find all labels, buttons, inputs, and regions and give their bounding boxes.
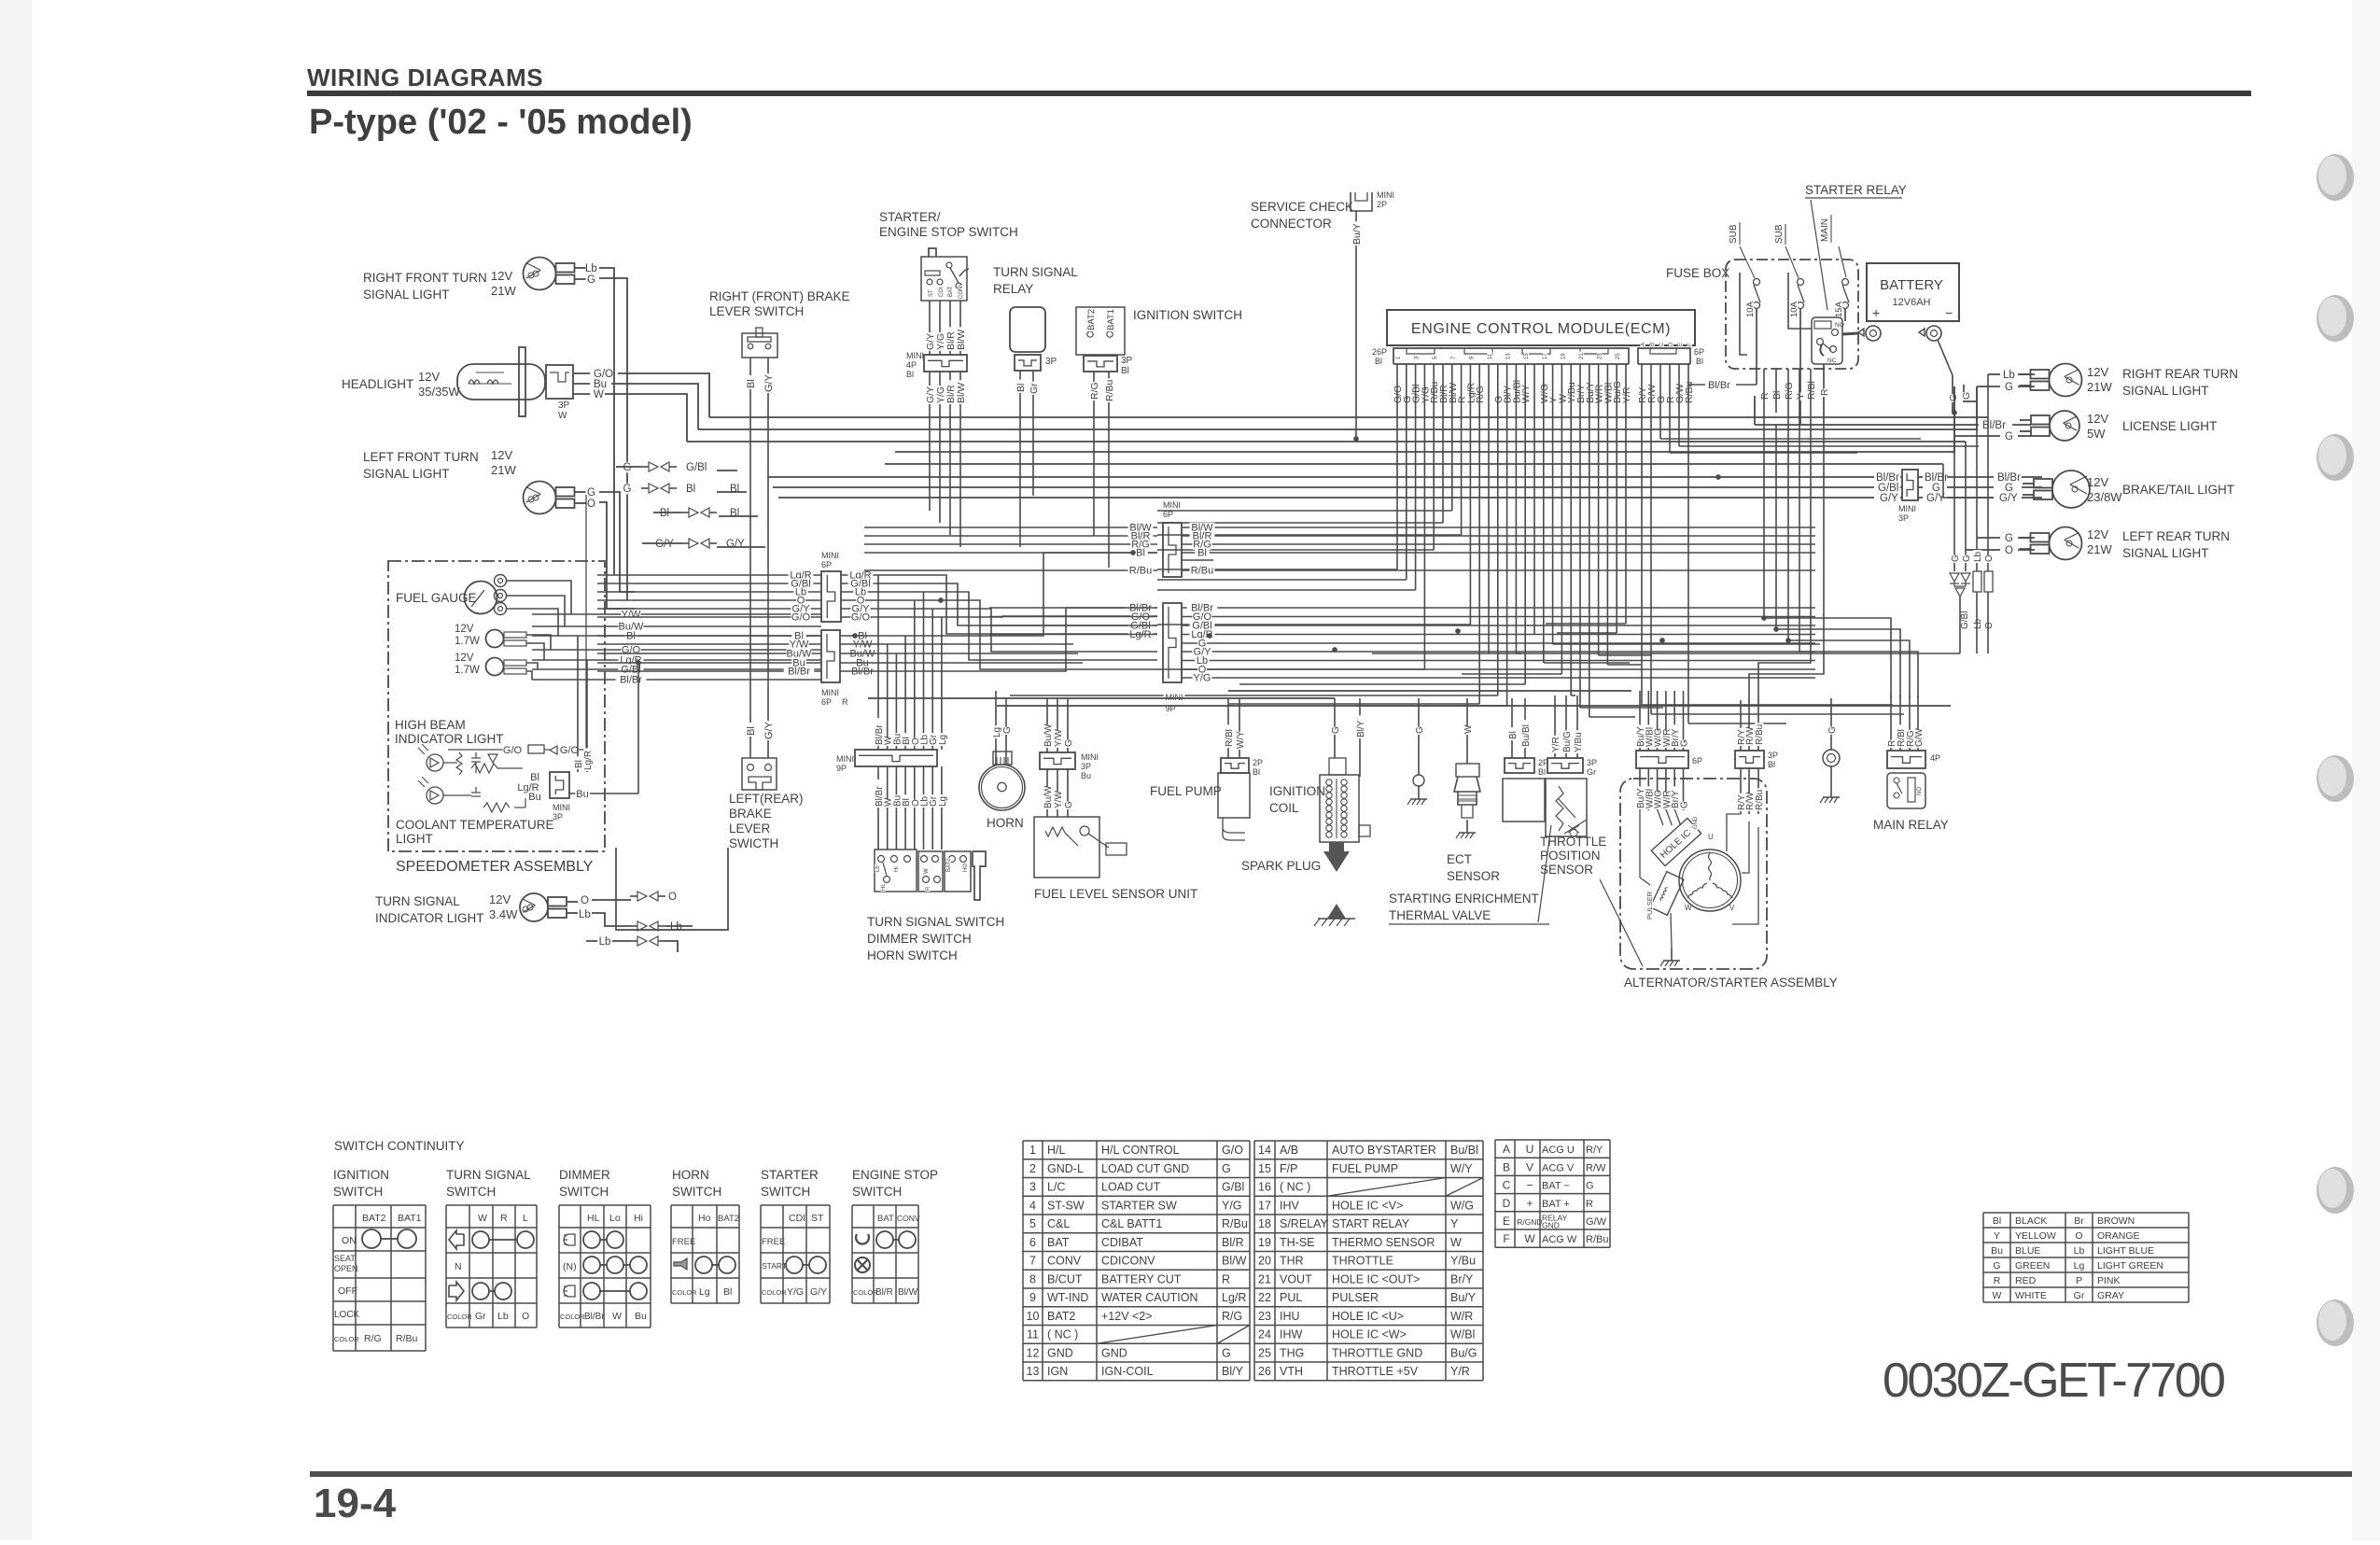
svg-text:Lg: Lg [938, 796, 948, 807]
svg-text:Bu/Bl: Bu/Bl [1450, 1144, 1478, 1157]
svg-text:GND: GND [1542, 1220, 1560, 1229]
svg-text:F: F [1503, 1232, 1509, 1245]
svg-text:2: 2 [1029, 1162, 1036, 1175]
svg-text:THR: THR [1280, 1255, 1304, 1268]
svg-text:W/Y: W/Y [1236, 731, 1246, 749]
svg-text:Bl: Bl [906, 370, 914, 379]
svg-text:THROTTLE +5V: THROTTLE +5V [1332, 1365, 1419, 1378]
svg-text:Y/W: Y/W [1054, 791, 1064, 808]
svg-text:WT-IND: WT-IND [1047, 1291, 1088, 1304]
svg-text:G: G [1962, 555, 1972, 562]
svg-text:NO: NO [1835, 322, 1844, 329]
svg-text:GND: GND [1693, 816, 1699, 829]
svg-text:6P: 6P [1694, 347, 1704, 357]
svg-text:CDICONV: CDICONV [1101, 1255, 1155, 1268]
svg-text:G/O: G/O [503, 745, 523, 756]
svg-text:Bu/Y: Bu/Y [1351, 223, 1363, 245]
svg-text:+12V <2>: +12V <2> [1101, 1310, 1153, 1323]
svg-text:COLOR: COLOR [560, 1313, 585, 1321]
svg-text:BAT2: BAT2 [362, 1213, 386, 1224]
svg-text:RIGHT FRONT TURN: RIGHT FRONT TURN [363, 271, 487, 285]
svg-text:WHITE: WHITE [2015, 1290, 2047, 1301]
svg-text:Bu/W: Bu/W [1043, 723, 1054, 747]
svg-text:MINI: MINI [1377, 190, 1394, 200]
svg-text:G: G [1415, 726, 1425, 734]
svg-text:R: R [926, 886, 931, 891]
svg-text:LEFT FRONT TURN: LEFT FRONT TURN [363, 450, 479, 464]
svg-text:Bl/R: Bl/R [1222, 1236, 1244, 1249]
svg-text:SWITCH: SWITCH [559, 1185, 609, 1199]
svg-text:IGN-COIL: IGN-COIL [1101, 1365, 1154, 1378]
svg-text:YELLOW: YELLOW [2015, 1230, 2056, 1242]
svg-text:CDIBAT: CDIBAT [1101, 1236, 1143, 1249]
svg-text:BAT +: BAT + [1542, 1199, 1570, 1210]
svg-text:W/G: W/G [1450, 1199, 1474, 1212]
svg-text:G/Y: G/Y [1926, 493, 1945, 504]
svg-text:SWITCH: SWITCH [446, 1185, 496, 1199]
svg-text:Lg: Lg [938, 735, 948, 745]
svg-text:R/G: R/G [1222, 1310, 1242, 1323]
svg-text:Gr: Gr [2074, 1290, 2085, 1301]
svg-text:Y/W: Y/W [622, 610, 641, 621]
svg-text:BATTERY CUT: BATTERY CUT [1101, 1272, 1182, 1285]
svg-text:0030Z-GET-7700: 0030Z-GET-7700 [1883, 1354, 2224, 1408]
svg-text:+: + [1872, 305, 1880, 320]
svg-text:15: 15 [1258, 1162, 1271, 1175]
svg-text:Bl: Bl [1771, 391, 1783, 400]
svg-text:1: 1 [1029, 1144, 1036, 1157]
svg-text:13: 13 [1027, 1365, 1040, 1378]
svg-text:U: U [1526, 1143, 1534, 1156]
svg-text:7: 7 [1029, 1255, 1036, 1268]
svg-text:IGN: IGN [1047, 1365, 1068, 1378]
svg-text:Bu: Bu [1991, 1245, 2003, 1257]
svg-text:LEFT REAR TURN: LEFT REAR TURN [2122, 529, 2230, 543]
svg-text:SUB: SUB [1774, 224, 1785, 244]
svg-text:G/Y: G/Y [655, 539, 674, 550]
svg-text:Lb: Lb [497, 1311, 509, 1322]
svg-text:HOLE IC <W>: HOLE IC <W> [1332, 1328, 1407, 1341]
svg-text:ORANGE: ORANGE [2097, 1230, 2140, 1242]
svg-text:17: 17 [1258, 1199, 1271, 1212]
svg-text:Bl/Br: Bl/Br [1982, 420, 2006, 431]
svg-text:BAT1: BAT1 [398, 1213, 422, 1224]
svg-text:2P: 2P [1253, 758, 1263, 767]
svg-text:LIGHT GREEN: LIGHT GREEN [2097, 1260, 2163, 1271]
svg-text:ACG U: ACG U [1542, 1145, 1575, 1156]
svg-text:F/P: F/P [1280, 1162, 1297, 1175]
svg-text:CDI: CDI [789, 1213, 805, 1224]
svg-text:6P: 6P [821, 560, 832, 569]
svg-text:26P: 26P [1372, 347, 1387, 357]
svg-text:G: G [587, 487, 595, 499]
svg-text:ST: ST [929, 289, 934, 297]
svg-text:Y/G: Y/G [787, 1286, 804, 1298]
svg-text:8: 8 [1029, 1272, 1036, 1285]
svg-text:IGNITION SWITCH: IGNITION SWITCH [1133, 308, 1242, 322]
svg-text:Y/R: Y/R [1450, 1365, 1470, 1378]
svg-text:LIGHT: LIGHT [396, 832, 433, 846]
svg-text:PULSER: PULSER [1645, 891, 1654, 920]
svg-text:Y/Bu: Y/Bu [1574, 732, 1584, 752]
svg-text:OFF: OFF [338, 1285, 357, 1297]
svg-text:W: W [924, 868, 930, 874]
svg-text:G: G [623, 462, 632, 473]
svg-text:LEFT(REAR): LEFT(REAR) [729, 792, 804, 806]
svg-text:R: R [1222, 1272, 1230, 1285]
svg-text:IHW: IHW [1280, 1328, 1303, 1341]
svg-text:R: R [1994, 1275, 2001, 1286]
svg-text:G: G [1827, 726, 1838, 734]
svg-text:Bl/Y: Bl/Y [1356, 720, 1366, 737]
svg-text:W: W [1463, 724, 1474, 734]
svg-text:19-4: 19-4 [314, 1481, 397, 1526]
svg-text:10A: 10A [1745, 301, 1756, 317]
svg-text:NC: NC [1827, 358, 1837, 364]
svg-text:ECT: ECT [1447, 852, 1472, 866]
svg-text:W: W [612, 1311, 622, 1322]
svg-text:LICENSE LIGHT: LICENSE LIGHT [2122, 419, 2217, 433]
svg-text:AUTO BYSTARTER: AUTO BYSTARTER [1332, 1144, 1436, 1157]
svg-text:HO: HO [963, 864, 969, 872]
svg-text:LOAD CUT GND: LOAD CUT GND [1101, 1162, 1189, 1175]
svg-text:25: 25 [1258, 1346, 1271, 1359]
svg-text:G/W: G/W [1914, 727, 1925, 747]
svg-text:ALTERNATOR/STARTER ASSEMBLY: ALTERNATOR/STARTER ASSEMBLY [1624, 976, 1838, 990]
svg-text:Gr: Gr [1587, 767, 1596, 777]
svg-text:D: D [1503, 1197, 1511, 1210]
svg-text:SIGNAL LIGHT: SIGNAL LIGHT [363, 288, 450, 302]
svg-text:R: R [842, 697, 848, 707]
svg-text:P: P [2076, 1275, 2082, 1286]
svg-text:12V: 12V [2087, 412, 2108, 426]
svg-text:ST: ST [811, 1213, 824, 1224]
svg-text:G: G [1586, 1181, 1594, 1192]
svg-text:Bl/Br: Bl/Br [1708, 380, 1730, 391]
svg-text:ON: ON [342, 1235, 357, 1246]
svg-text:THROTTLE: THROTTLE [1540, 835, 1606, 849]
svg-text:Y/G: Y/G [1222, 1199, 1242, 1212]
svg-text:ENGINE CONTROL MODULE(ECM): ENGINE CONTROL MODULE(ECM) [1411, 321, 1671, 337]
svg-text:15: 15 [1524, 353, 1530, 359]
svg-text:STARTER/: STARTER/ [879, 210, 941, 224]
svg-text:19: 19 [1258, 1236, 1271, 1249]
svg-text:MINI: MINI [1081, 752, 1099, 762]
svg-text:G/O: G/O [1222, 1144, 1243, 1157]
svg-text:Bl: Bl [1197, 548, 1207, 559]
svg-text:G/Y: G/Y [1999, 493, 2018, 504]
svg-text:A: A [1503, 1143, 1510, 1156]
svg-text:16: 16 [1258, 1181, 1271, 1194]
svg-text:SWITCH: SWITCH [761, 1185, 810, 1199]
svg-text:W: W [1524, 1232, 1535, 1245]
svg-text:INDICATOR LIGHT: INDICATOR LIGHT [375, 911, 484, 925]
svg-text:Bl: Bl [1768, 760, 1775, 769]
svg-text:THERMO SENSOR: THERMO SENSOR [1332, 1236, 1435, 1249]
svg-text:O: O [1984, 555, 1995, 562]
svg-text:RELAY: RELAY [993, 282, 1033, 296]
svg-text:BAT2: BAT2 [718, 1214, 739, 1224]
svg-text:1.7W: 1.7W [455, 636, 480, 647]
svg-text:19: 19 [1561, 353, 1566, 359]
svg-text:O: O [1984, 622, 1995, 629]
svg-text:18: 18 [1258, 1217, 1271, 1230]
svg-text:Bl: Bl [746, 726, 757, 736]
svg-text:R/Bu: R/Bu [1222, 1217, 1248, 1230]
svg-text:Bl: Bl [1993, 1215, 2001, 1227]
svg-text:R/Bl: R/Bl [1806, 381, 1817, 400]
svg-text:G/Bl: G/Bl [686, 462, 707, 473]
svg-text:G: G [1002, 726, 1013, 734]
svg-text:CONV: CONV [1047, 1255, 1082, 1268]
svg-text:12V: 12V [489, 892, 511, 906]
svg-text:Bl: Bl [1538, 767, 1546, 777]
svg-text:L: L [523, 1213, 528, 1224]
svg-text:RIGHT REAR TURN: RIGHT REAR TURN [2122, 367, 2238, 381]
svg-text:21W: 21W [491, 284, 516, 298]
svg-text:R/G: R/G [1089, 382, 1100, 400]
svg-text:−: − [1945, 305, 1953, 320]
svg-text:Lg/R: Lg/R [583, 751, 594, 770]
svg-text:R/W: R/W [1586, 1162, 1606, 1173]
svg-text:HORN SWITCH: HORN SWITCH [867, 948, 958, 962]
svg-text:Br: Br [2074, 1215, 2084, 1227]
svg-text:Bu/G: Bu/G [1562, 731, 1573, 752]
svg-text:G/O: G/O [560, 745, 580, 756]
svg-text:V: V [1729, 904, 1735, 912]
svg-text:W: W [1450, 1236, 1462, 1249]
svg-text:E: E [1503, 1215, 1510, 1228]
svg-text:12V: 12V [491, 448, 512, 462]
svg-text:G: G [587, 274, 595, 286]
svg-text:R/Bu: R/Bu [396, 1333, 418, 1344]
svg-text:24: 24 [1258, 1328, 1271, 1341]
svg-text:Lb: Lb [579, 909, 591, 920]
svg-text:G/O: G/O [851, 612, 871, 624]
svg-text:VTH: VTH [1280, 1365, 1303, 1378]
svg-text:HORN: HORN [672, 1168, 709, 1182]
svg-text:BAT2: BAT2 [1047, 1310, 1075, 1323]
svg-text:3P: 3P [1081, 762, 1091, 771]
svg-text:R/Bl: R/Bl [1225, 729, 1235, 747]
svg-text:14: 14 [1258, 1144, 1271, 1157]
svg-text:Lg: Lg [2074, 1260, 2085, 1271]
svg-text:GND: GND [1101, 1346, 1127, 1359]
svg-text:LOCK: LOCK [334, 1310, 360, 1320]
svg-text:COIL: COIL [1269, 801, 1299, 815]
svg-text:Y/R: Y/R [1551, 737, 1561, 752]
svg-text:WATER CAUTION: WATER CAUTION [1101, 1291, 1197, 1304]
svg-text:G/Y: G/Y [810, 1286, 827, 1298]
svg-text:BAT: BAT [948, 286, 954, 297]
svg-text:Br/Y: Br/Y [1450, 1272, 1474, 1285]
svg-text:9P: 9P [836, 764, 847, 773]
svg-text:COLOR: COLOR [447, 1313, 472, 1321]
svg-text:R: R [1819, 388, 1830, 396]
svg-text:12V: 12V [2087, 365, 2108, 379]
svg-text:3P: 3P [1898, 513, 1909, 523]
svg-text:10: 10 [1027, 1310, 1040, 1323]
svg-text:Bl: Bl [1508, 731, 1519, 739]
svg-text:23/8W: 23/8W [2087, 490, 2122, 504]
svg-text:R/Bu: R/Bu [1129, 566, 1152, 577]
svg-text:Bl: Bl [660, 508, 669, 519]
svg-text:S/RELAY: S/RELAY [1280, 1217, 1329, 1230]
svg-text:( NC ): ( NC ) [1280, 1181, 1310, 1194]
svg-text:GRAY: GRAY [2097, 1290, 2124, 1301]
svg-text:B/CUT: B/CUT [1047, 1272, 1083, 1285]
svg-text:HOLE IC <V>: HOLE IC <V> [1332, 1199, 1403, 1212]
svg-text:12: 12 [1027, 1346, 1040, 1359]
svg-text:MINI: MINI [1898, 504, 1916, 513]
svg-text:D: D [1669, 342, 1674, 346]
svg-text:BRAKE/TAIL LIGHT: BRAKE/TAIL LIGHT [2122, 483, 2234, 497]
svg-text:BAT: BAT [1047, 1236, 1070, 1249]
svg-text:O: O [2005, 545, 2013, 556]
svg-text:LEVER: LEVER [729, 822, 771, 836]
svg-text:Y: Y [1450, 1217, 1459, 1230]
svg-text:GND-L: GND-L [1047, 1162, 1084, 1175]
svg-text:HOLE IC <U>: HOLE IC <U> [1332, 1310, 1404, 1323]
svg-text:OPEN: OPEN [334, 1264, 358, 1273]
svg-text:HL: HL [881, 883, 887, 891]
svg-text:IGNITION: IGNITION [1269, 784, 1325, 798]
svg-text:TURN SIGNAL SWITCH: TURN SIGNAL SWITCH [867, 915, 1004, 929]
svg-text:Bl/W: Bl/W [898, 1287, 918, 1298]
svg-text:W: W [1993, 1290, 2002, 1301]
svg-text:ACG V: ACG V [1542, 1162, 1575, 1173]
svg-text:VOUT: VOUT [1280, 1272, 1312, 1285]
svg-text:FUSE BOX: FUSE BOX [1666, 266, 1729, 280]
svg-text:INDICATOR LIGHT: INDICATOR LIGHT [395, 732, 504, 746]
svg-text:G/Y: G/Y [1880, 493, 1898, 504]
svg-text:BAT: BAT [877, 1214, 894, 1224]
svg-text:STARTING ENRICHMENT: STARTING ENRICHMENT [1389, 892, 1539, 906]
svg-text:TURN SIGNAL: TURN SIGNAL [446, 1168, 531, 1182]
svg-text:R/Bu: R/Bu [1755, 724, 1765, 745]
svg-text:P-type ('02 - '05 model): P-type ('02 - '05 model) [309, 103, 693, 142]
svg-text:25: 25 [1616, 353, 1621, 359]
svg-text:Bl: Bl [1696, 357, 1703, 366]
svg-text:17: 17 [1543, 353, 1548, 359]
svg-text:3: 3 [1029, 1181, 1036, 1194]
svg-text:Bl: Bl [1121, 366, 1129, 376]
svg-text:G: G [1064, 739, 1074, 747]
svg-text:MINI: MINI [553, 803, 570, 812]
svg-text:MINI: MINI [821, 688, 839, 697]
svg-text:O: O [2075, 1230, 2082, 1242]
svg-text:FUEL LEVEL SENSOR UNIT: FUEL LEVEL SENSOR UNIT [1034, 887, 1197, 901]
svg-text:START: START [762, 1261, 787, 1271]
svg-text:Bu: Bu [1081, 771, 1091, 780]
svg-text:6P: 6P [821, 697, 832, 707]
svg-text:Bl/W: Bl/W [956, 330, 967, 350]
svg-text:ENGINE STOP: ENGINE STOP [852, 1168, 938, 1182]
svg-text:R/Bu: R/Bu [1755, 790, 1765, 810]
svg-text:G: G [2005, 382, 2013, 393]
svg-text:GREEN: GREEN [2015, 1260, 2050, 1271]
svg-text:Bu/Bl: Bu/Bl [1521, 724, 1532, 747]
svg-text:Lb: Lb [2074, 1245, 2085, 1257]
svg-text:HOLE IC <OUT>: HOLE IC <OUT> [1332, 1272, 1420, 1285]
svg-text:R/G: R/G [364, 1333, 382, 1344]
svg-text:NO: NO [1917, 787, 1923, 795]
svg-text:R: R [500, 1213, 508, 1224]
svg-text:C&L: C&L [1047, 1217, 1070, 1230]
svg-text:COLOR: COLOR [762, 1288, 787, 1297]
svg-text:O: O [587, 499, 595, 510]
svg-text:PULSER: PULSER [1332, 1291, 1379, 1304]
svg-text:SWITCH: SWITCH [672, 1185, 721, 1199]
svg-text:Gr: Gr [475, 1311, 486, 1322]
svg-text:Y/Bu: Y/Bu [1450, 1255, 1476, 1268]
svg-text:G: G [623, 484, 632, 495]
svg-text:THERMAL VALVE: THERMAL VALVE [1389, 908, 1491, 922]
svg-text:G/Y: G/Y [763, 373, 775, 392]
svg-text:11: 11 [1027, 1328, 1039, 1341]
svg-text:Lb: Lb [1973, 618, 1983, 629]
svg-text:( NC ): ( NC ) [1047, 1328, 1078, 1341]
svg-text:SEAT: SEAT [334, 1254, 356, 1263]
svg-text:Lb: Lb [599, 936, 611, 948]
svg-text:Bl: Bl [1015, 384, 1027, 392]
svg-text:Lb: Lb [670, 921, 682, 933]
svg-text:STARTER RELAY: STARTER RELAY [1805, 183, 1907, 197]
svg-text:Bl/W: Bl/W [1222, 1255, 1247, 1268]
svg-text:3P: 3P [1768, 751, 1778, 760]
svg-text:Y/R: Y/R [1621, 386, 1632, 403]
svg-text:Bu: Bu [576, 789, 588, 800]
svg-text:HORN: HORN [987, 816, 1024, 830]
svg-text:A/B: A/B [1280, 1144, 1298, 1157]
svg-text:4: 4 [1029, 1199, 1036, 1212]
svg-text:12V: 12V [491, 269, 512, 283]
svg-text:2P: 2P [1377, 200, 1387, 209]
svg-text:Lg/R: Lg/R [1222, 1291, 1246, 1304]
svg-text:Bl: Bl [686, 484, 695, 495]
svg-text:12V: 12V [455, 624, 474, 635]
svg-text:MINI: MINI [836, 754, 854, 764]
svg-text:IHV: IHV [1280, 1199, 1300, 1212]
svg-text:G: G [1948, 394, 1959, 401]
svg-text:13: 13 [1506, 353, 1512, 359]
svg-text:R/G: R/G [1475, 386, 1486, 403]
svg-text:R/G: R/G [1784, 382, 1795, 400]
svg-text:Bu: Bu [635, 1311, 647, 1322]
svg-text:SWITCH: SWITCH [333, 1185, 383, 1199]
svg-text:START RELAY: START RELAY [1332, 1217, 1410, 1230]
svg-text:TURN SIGNAL: TURN SIGNAL [375, 894, 460, 908]
svg-text:26: 26 [1258, 1365, 1271, 1378]
svg-text:G/W: G/W [1586, 1216, 1607, 1228]
svg-text:Hi: Hi [634, 1213, 643, 1224]
svg-text:R: R [1759, 392, 1771, 400]
svg-text:11: 11 [1488, 353, 1493, 359]
svg-text:G/Y: G/Y [763, 721, 775, 739]
svg-text:Bl/R: Bl/R [875, 1287, 893, 1298]
svg-text:MAIN RELAY: MAIN RELAY [1873, 818, 1949, 832]
svg-text:3P: 3P [1121, 356, 1133, 366]
svg-text:IGNITION: IGNITION [333, 1168, 389, 1182]
svg-text:L/C: L/C [1047, 1181, 1065, 1194]
svg-text:BAT2: BAT2 [946, 858, 952, 872]
svg-text:E: E [1678, 343, 1684, 346]
svg-text:U: U [1708, 833, 1714, 841]
svg-text:Lo: Lo [609, 1213, 621, 1224]
svg-text:Bl: Bl [730, 484, 739, 495]
svg-text:21: 21 [1579, 353, 1585, 359]
svg-text:21W: 21W [2087, 542, 2112, 556]
